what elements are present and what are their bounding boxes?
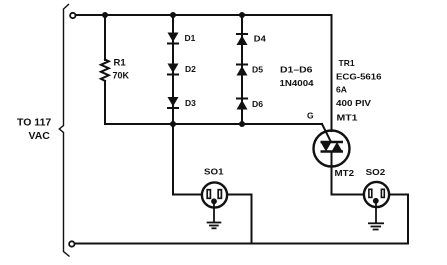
terminal top <box>70 13 75 18</box>
wire SO2 right <box>385 195 409 244</box>
wire top rail <box>76 14 332 16</box>
junction dot R1 top <box>102 12 108 18</box>
svg-text:MT1: MT1 <box>337 113 358 123</box>
brace TO 117 VAC <box>59 4 69 257</box>
svg-text:D6: D6 <box>252 99 263 109</box>
junction dot D4 top <box>239 12 245 18</box>
diode D5 <box>236 64 248 76</box>
svg-text:D4: D4 <box>254 34 266 44</box>
svg-text:1N4004: 1N4004 <box>280 78 314 88</box>
svg-text:ECG-5616: ECG-5616 <box>336 72 382 82</box>
wire SO1 right <box>222 195 252 244</box>
svg-text:D3: D3 <box>185 98 196 108</box>
terminal bottom <box>69 241 74 246</box>
svg-text:D2: D2 <box>185 64 196 74</box>
wire SO1 inside left <box>202 194 207 196</box>
diode D1 <box>167 33 179 45</box>
svg-text:TR1: TR1 <box>339 58 355 68</box>
svg-text:MT2: MT2 <box>335 168 355 178</box>
wire SO1 feed down <box>173 124 202 195</box>
socket SO1 <box>202 182 227 207</box>
socket SO2 <box>364 182 389 207</box>
diode D2 <box>167 64 179 76</box>
svg-text:6A: 6A <box>336 84 347 94</box>
svg-text:70K: 70K <box>113 71 130 82</box>
wire gate rail <box>105 123 322 125</box>
svg-text:D1–D6: D1–D6 <box>280 64 313 74</box>
wire MT2 to SO2 <box>332 152 365 195</box>
junction dot D6 bottom <box>239 121 245 127</box>
ground SO2 <box>368 203 384 230</box>
wire R1 branch top <box>104 15 106 60</box>
svg-text:R1: R1 <box>114 58 127 69</box>
wire MT1 drop <box>331 15 333 131</box>
diode D4 <box>236 33 248 45</box>
wire D1-D3 column <box>172 15 174 124</box>
triac TR1 <box>314 131 350 167</box>
svg-text:SO1: SO1 <box>204 167 224 177</box>
svg-text:SO2: SO2 <box>366 167 386 177</box>
wire D4-D6 column <box>241 15 243 124</box>
wire gate diagonal <box>322 124 331 142</box>
wire SO2 inside left <box>364 194 369 196</box>
junction dot D1 top <box>170 12 176 18</box>
wire bottom rail <box>75 243 409 245</box>
junction dot D3 bottom <box>170 121 176 127</box>
wire R1 bottom <box>104 81 106 124</box>
ground SO1 <box>207 203 222 228</box>
resistor R1 <box>101 60 109 81</box>
svg-text:D1: D1 <box>185 33 196 43</box>
svg-text:VAC: VAC <box>29 130 51 142</box>
svg-text:D5: D5 <box>252 64 263 74</box>
svg-text:400 PIV: 400 PIV <box>336 98 371 108</box>
diode D3 <box>167 97 179 109</box>
svg-text:G: G <box>307 111 314 121</box>
svg-text:TO 117: TO 117 <box>17 117 51 129</box>
diode D6 <box>236 98 248 110</box>
